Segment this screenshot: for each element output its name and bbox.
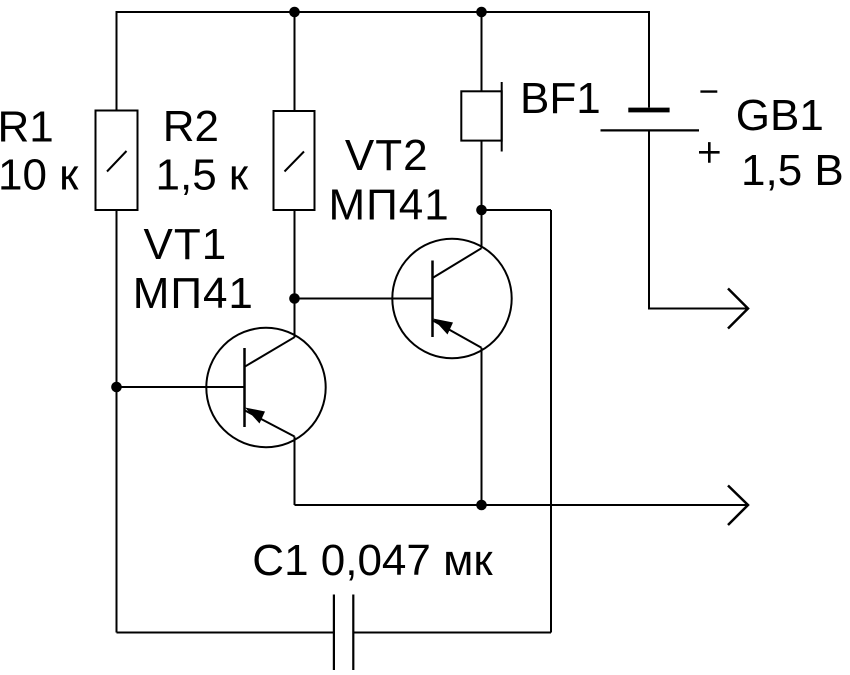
wire VT1 base [117, 386, 245, 388]
arrow lower output terminal [728, 486, 748, 526]
svg-text:BF1: BF1 [520, 74, 601, 123]
wire feedback branch riser [550, 210, 552, 633]
node R2/VT2 base junction [289, 293, 300, 304]
wire VT2 base [295, 298, 433, 300]
arrow battery output terminal [728, 289, 748, 329]
wire VT2 collector up to BF1 [481, 210, 483, 248]
svg-text:GB1: GB1 [736, 91, 824, 140]
transistor VT2 emitter stroke [433, 320, 482, 348]
resistor R2 body [274, 111, 315, 210]
battery minus sign [700, 90, 717, 92]
svg-text:C1 0,047 мк: C1 0,047 мк [252, 536, 493, 585]
node at VT1 base tap [111, 382, 122, 393]
wire bottom rail left of C1 [117, 632, 334, 634]
transistor VT1 base bar [243, 348, 246, 427]
phone BF1 body [461, 91, 501, 140]
node at R2 top [289, 7, 300, 18]
wire top rail [117, 12, 650, 111]
node BF1/collector junction [476, 205, 487, 216]
resistor R2 power slash [285, 152, 305, 172]
transistor VT1 circle [206, 328, 325, 447]
wire BF1 bottom lead [481, 141, 483, 211]
capacitor C1 left plate [333, 595, 335, 671]
wire bottom rail right of C1 [353, 632, 551, 634]
svg-text:1,5 к: 1,5 к [156, 151, 249, 200]
svg-text:VT2: VT2 [345, 131, 429, 180]
battery GB1 negative thick plate [628, 108, 669, 113]
capacitor C1 right plate [352, 595, 354, 671]
svg-text:1,5 В: 1,5 В [741, 146, 844, 195]
transistor VT1 collector stroke [245, 337, 295, 367]
wire lower output line [295, 504, 749, 506]
svg-text:R1: R1 [0, 103, 54, 152]
node VT2 emitter junction [476, 500, 487, 511]
wire VT2 emitter down [481, 348, 483, 505]
wire R2 bottom lead to VT1 collector [294, 210, 296, 338]
wire feedback branch horizontal [482, 209, 552, 211]
resistor R1 body [96, 111, 138, 211]
wire BF1 top lead [481, 12, 483, 92]
transistor VT2 circle [392, 239, 511, 358]
phone BF1 side bar [501, 82, 503, 152]
transistor VT2 collector stroke [433, 248, 482, 278]
wire R1 bottom lead down to bottom rail [116, 210, 118, 633]
battery plus sign [699, 142, 720, 163]
wire VT1 emitter down [294, 437, 296, 506]
resistor R1 power slash [107, 151, 127, 172]
svg-text:R2: R2 [163, 102, 219, 151]
transistor VT1 emitter arrow [245, 408, 265, 424]
svg-text:VT1: VT1 [144, 220, 228, 269]
transistor VT2 base bar [431, 261, 434, 338]
battery GB1 positive thin plate [601, 129, 700, 131]
svg-text:МП41: МП41 [133, 269, 254, 318]
svg-text:МП41: МП41 [329, 180, 450, 229]
svg-text:10 к: 10 к [0, 151, 79, 200]
wire R2 top lead [294, 12, 296, 111]
wire battery bottom lead [649, 132, 748, 309]
transistor VT2 emitter arrow [433, 319, 453, 335]
node at BF1 top [476, 7, 487, 18]
transistor VT1 emitter stroke [245, 410, 295, 436]
